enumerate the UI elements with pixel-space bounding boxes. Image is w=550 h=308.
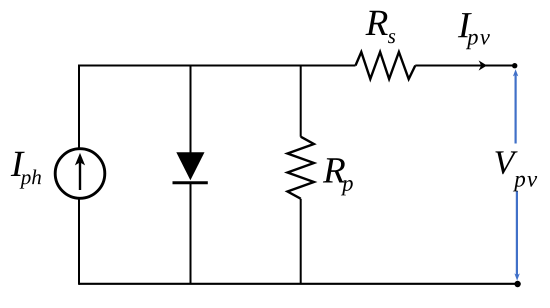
wire left vertical upper (top node to current source)	[78, 65, 80, 149]
label Iph letter I	[11, 152, 25, 176]
Vpv blue arrow lower segment (arrowhead down)	[514, 191, 519, 281]
current direction arrowhead Ipv on top wire	[479, 60, 487, 70]
wire top horizontal (Rs to output node)	[415, 65, 515, 67]
label Rs subscript s	[388, 33, 395, 43]
label Ipv letter I	[458, 13, 472, 37]
Vpv blue arrow upper segment (arrowhead up)	[513, 69, 518, 143]
wire diode branch lower	[190, 183, 192, 284]
node dot output bottom terminal	[514, 281, 520, 287]
diode D1 triangle	[176, 152, 204, 180]
current source Iph circle	[55, 149, 105, 199]
node dot output top terminal	[512, 63, 517, 68]
label Rs letter R	[366, 11, 388, 35]
wire bottom horizontal	[79, 283, 517, 285]
wire diode branch upper	[190, 65, 192, 154]
label Vpv subscript pv	[513, 176, 537, 192]
label Rp subscript p	[341, 180, 353, 195]
resistor Rs (series) zigzag	[356, 52, 416, 79]
current source arrow (up)	[79, 159, 81, 191]
label Vpv letter V	[495, 151, 517, 174]
diode D1 cathode bar	[173, 181, 208, 184]
wire left vertical lower (current source to bottom wire)	[78, 199, 80, 285]
wire Rp branch lower	[300, 199, 302, 284]
label Rp letter R	[323, 158, 345, 182]
wire Rp branch upper	[300, 65, 302, 137]
label Iph subscript ph	[20, 170, 41, 189]
label Ipv subscript pv	[466, 34, 490, 49]
wire top horizontal (left node to Rs)	[79, 65, 356, 67]
resistor Rp (shunt) zigzag	[288, 137, 314, 199]
